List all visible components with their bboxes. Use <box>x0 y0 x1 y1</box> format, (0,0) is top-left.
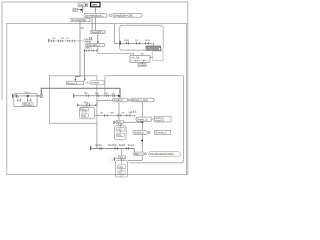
dot on wire <box>141 140 143 142</box>
S3 contact <box>113 121 116 124</box>
link circle J <box>148 131 150 134</box>
arrowhead <box>97 42 99 44</box>
block B selected <box>91 2 101 7</box>
inner frame R2 <box>7 24 187 175</box>
block F <box>71 18 90 22</box>
subsystem frame R5 <box>120 25 164 50</box>
link circle <box>109 14 112 17</box>
S4 box2 <box>118 171 125 175</box>
block D SomethingSignal_1 <box>84 13 107 17</box>
S2 body box1 <box>81 108 89 112</box>
block D2 <box>113 98 128 102</box>
svg-text:(Smwhere_x): (Smwhere_x) <box>155 132 166 135</box>
block E2 <box>131 98 154 102</box>
wire D down x95 <box>94 17 96 30</box>
block E <box>113 13 142 17</box>
wire A down <box>82 7 84 14</box>
RG4 start tick <box>90 146 91 150</box>
RG1 contact pair 1 <box>125 42 128 45</box>
wire Several down <box>97 34 99 43</box>
subsystem frame R3a left <box>49 76 97 124</box>
RG1 contact pair 3 <box>144 42 147 45</box>
contact tick thick <box>83 49 86 52</box>
diamond H <box>152 118 154 120</box>
RG1 contact pair 2 <box>135 42 138 45</box>
rung RG2b <box>95 116 135 118</box>
port box <box>40 95 42 98</box>
svg-text:Schematics_1: Schematics_1 <box>86 43 100 47</box>
S3 rung dot <box>142 121 144 123</box>
S4 box1 <box>118 165 126 169</box>
svg-text:zz: zz <box>112 159 114 161</box>
S1 left tick <box>11 94 14 98</box>
wire E2 down <box>141 102 143 117</box>
S1 inner contact pair b <box>26 99 29 102</box>
block right of Invention <box>91 81 104 85</box>
svg-text:MWMWS: MWMWS <box>139 65 148 67</box>
svg-text:Gated: Gated <box>91 3 98 7</box>
wire D2 down to S3 <box>118 102 120 121</box>
tick under TY <box>141 62 144 63</box>
S2 body frame <box>79 107 94 119</box>
S1 inner box <box>23 103 33 106</box>
link circle D2 <box>128 99 130 102</box>
S4 drop wire <box>121 149 123 156</box>
svg-text:Mwmwm_D: Mwmwm_D <box>67 83 78 85</box>
TY block <box>130 55 150 62</box>
svg-text:A-(2): A-(2) <box>82 115 86 118</box>
block I <box>155 116 172 122</box>
S3 body box1 <box>117 128 125 132</box>
block Schematics <box>86 43 105 47</box>
S1 inner contact pair a <box>16 99 19 102</box>
arrowhead into node <box>81 9 83 11</box>
svg-text:(XXwhat): (XXwhat) <box>91 81 99 84</box>
block K <box>155 131 171 135</box>
svg-text:Smwgh: Smwgh <box>128 145 135 147</box>
svg-text:SomethingSignal_1: SomethingSignal_1 <box>85 13 104 17</box>
S2 ticks <box>82 111 85 112</box>
S3 label box <box>116 120 123 124</box>
S2 contact pair <box>86 104 89 107</box>
link circle L <box>144 153 146 156</box>
wire TY right <box>150 56 153 58</box>
subsystem S1 <box>14 93 37 106</box>
svg-text:SomethingSgnl: SomethingSgnl <box>72 18 87 22</box>
wire up to D2 <box>97 100 113 105</box>
S3 inner wire <box>119 123 121 133</box>
wire contact down long <box>83 52 86 80</box>
block L <box>134 152 144 156</box>
svg-text:SmthgSmpls = 1941: SmthgSmpls = 1941 <box>114 13 134 17</box>
outer frame R1 <box>2 2 188 175</box>
svg-text:SwghtS: SwghtS <box>119 144 126 147</box>
svg-text:(Smwht_2_1)(xx): (Smwht_2_1)(xx) <box>132 98 148 102</box>
S1 junction dot <box>27 95 29 97</box>
S1 arrowhead <box>38 95 40 97</box>
arrowhead <box>84 79 86 81</box>
block Invention_D <box>67 81 84 85</box>
small block under TY <box>138 64 147 67</box>
arrowhead into D2 <box>118 95 120 97</box>
long bus wire <box>41 88 120 98</box>
rung RG1 <box>120 43 154 46</box>
RG2b contact pairs <box>103 114 106 117</box>
wire F down long <box>75 22 80 80</box>
S3 body box2 <box>117 133 124 137</box>
S4 body <box>115 161 127 178</box>
wire J down to S4 <box>128 135 142 161</box>
S2 contact <box>76 104 79 107</box>
svg-text:Smwht_1(): Smwht_1() <box>137 117 148 121</box>
svg-text:SthgSwt: SthgSwt <box>95 144 102 147</box>
wire Schematics to TY <box>98 47 134 56</box>
rung RG3 into D2 <box>72 94 75 98</box>
RG4 feed wire <box>96 123 98 149</box>
S2 arrowhead <box>95 104 97 106</box>
RG1 start tick <box>120 41 121 45</box>
arrowhead F wire <box>75 79 77 81</box>
block A Gating_1 <box>78 3 88 7</box>
rung wire y50.4 <box>84 49 98 51</box>
S3 ticks <box>117 124 120 126</box>
contact row left of schematics <box>47 39 50 42</box>
dense block R5 <box>146 46 162 51</box>
S1 rung <box>13 95 39 97</box>
wire R5 feed drop <box>115 24 120 44</box>
block right of TY <box>153 51 163 61</box>
contact pairs <box>85 50 88 52</box>
svg-text:x-x: x-x <box>120 176 123 178</box>
S4 vertical <box>121 159 123 171</box>
svg-text:SbS_(2)_x: SbS_(2)_x <box>23 104 33 106</box>
svg-text:+A(2): +A(2) <box>117 128 122 131</box>
svg-text:Key_ Test: Key_ Test <box>131 56 140 59</box>
svg-text:thSmthingSmwhtXy: thSmthingSmwhtXy <box>155 152 175 156</box>
block Several <box>91 30 105 34</box>
block H <box>136 117 152 121</box>
svg-text:+(C): +(C) <box>86 83 90 85</box>
svg-text:+Agree_x): +Agree_x) <box>155 119 164 122</box>
wire D down x92 <box>91 17 93 30</box>
S4 ticks <box>120 159 123 160</box>
RG4 contact pairs <box>99 147 102 150</box>
S3 rung <box>114 121 142 123</box>
svg-text:SmwhtSgn: SmwhtSgn <box>108 144 118 147</box>
svg-text:Smwht_D: Smwht_D <box>114 98 124 102</box>
wire C to A-drop <box>77 9 81 11</box>
wire H to J <box>141 121 143 130</box>
RG4 rung <box>91 149 135 152</box>
wire B down <box>94 7 96 14</box>
S4 Rest box <box>119 156 126 160</box>
S4 contact tick <box>113 157 116 161</box>
block C pts <box>73 8 77 12</box>
S1 rung contact <box>15 94 18 97</box>
svg-text:Several(0)_1: Several(0)_1 <box>92 30 105 34</box>
S3 body <box>115 126 127 140</box>
S2 rung <box>78 104 96 106</box>
block M <box>149 152 181 157</box>
subsystem frame R4 right <box>105 76 184 163</box>
svg-text:Smwht_y): Smwht_y) <box>134 131 144 135</box>
S2 body box2 <box>81 114 88 118</box>
svg-text:under_s: under_s <box>85 47 93 50</box>
block J <box>133 130 147 134</box>
